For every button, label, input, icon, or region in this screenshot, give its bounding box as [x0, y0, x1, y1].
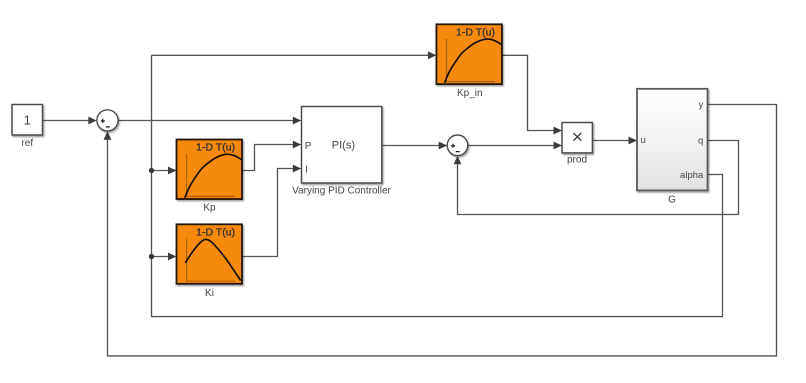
Sum2 minus sign [456, 151, 460, 153]
svg-text:G: G [668, 194, 676, 205]
constant block ref [12, 105, 43, 136]
svg-text:I: I [305, 164, 308, 175]
svg-text:alpha: alpha [680, 170, 704, 181]
svg-text:y: y [699, 100, 704, 111]
wire: ref output to Sum1 [43, 117, 97, 125]
svg-text:Kp_in: Kp_in [457, 88, 483, 99]
prod multiply sign [573, 133, 581, 141]
svg-text:PI(s): PI(s) [332, 140, 355, 152]
Kp_in axes [447, 39, 496, 82]
junction node at Ki branch [149, 254, 154, 259]
sum junction Sum1 [97, 110, 118, 131]
lookup table block Kp_in [436, 24, 502, 84]
sum junction Sum2 [447, 135, 468, 156]
svg-text:prod: prod [567, 155, 587, 166]
Sum1 plus sign [101, 119, 105, 123]
svg-text:P: P [305, 141, 312, 152]
wire: prod output to G u input [592, 137, 637, 145]
Sum2 plus sign [451, 144, 455, 148]
svg-text:1-D T(u): 1-D T(u) [196, 227, 235, 239]
wire: scheduling trunk to Kp_in input [152, 51, 437, 59]
product block prod [562, 123, 592, 153]
Kp axes [187, 154, 236, 197]
wire: Sum1 output to Varying PID Controller input 1 [118, 117, 301, 125]
wire: PID output to Sum2 plus input [382, 142, 447, 150]
Ki curve [185, 239, 240, 280]
lookup table block Ki [177, 224, 243, 283]
Kp curve [185, 154, 243, 198]
svg-text:1-D T(u): 1-D T(u) [456, 27, 495, 39]
wire: branch to Ki input [152, 253, 177, 261]
wire: Sum2 output to prod input 2 [468, 142, 562, 150]
wire: branch to Kp input [152, 167, 177, 175]
svg-text:u: u [641, 135, 646, 146]
svg-text:Ki: Ki [205, 288, 214, 299]
svg-text:q: q [698, 136, 703, 147]
Sum1 minus sign [106, 126, 110, 128]
wire: Kp_in output to prod input 1 [502, 55, 562, 134]
subsystem block G [637, 89, 708, 191]
Ki axes [187, 239, 236, 282]
PID controller block U1 [302, 107, 382, 184]
junction node at Kp branch [149, 168, 154, 173]
wire: alpha feedback (G alpha output to scheduling trunk) [152, 55, 723, 316]
svg-text:1-D T(u): 1-D T(u) [196, 142, 235, 154]
wire: q feedback (G q output to Sum2 minus input) [454, 141, 739, 215]
svg-text:ref: ref [21, 138, 33, 149]
wire: y feedback (G y output to Sum1 minus input) [104, 105, 777, 356]
wire: Kp output to PID P input [243, 141, 302, 171]
svg-text:Varying PID Controller: Varying PID Controller [292, 185, 391, 196]
svg-text:1: 1 [24, 112, 31, 127]
Kp_in curve [445, 39, 503, 83]
wire: Ki output to PID I input [243, 165, 302, 257]
lookup table block Kp [177, 140, 243, 200]
svg-text:Kp: Kp [203, 203, 216, 214]
